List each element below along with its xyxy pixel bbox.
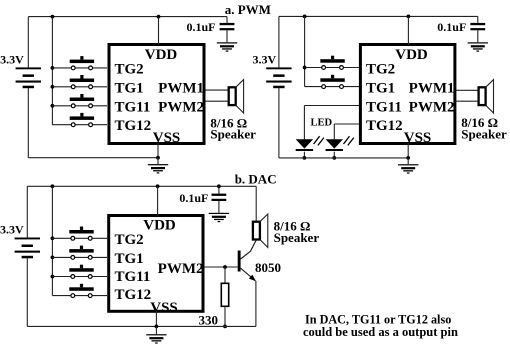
label 8/16 ohm (LS2) — [461, 115, 498, 130]
label 3.3V (b) — [0, 222, 24, 236]
pin label PWM2 (U3) — [158, 261, 204, 277]
wire rail to capacitor C1 — [226, 17, 228, 23]
junction VSS/ground rail — [156, 156, 160, 160]
wire switch column (right) — [304, 16, 306, 86]
pin label TG12 (U3) — [115, 287, 152, 303]
label Speaker (LS2) — [461, 127, 507, 142]
pin label PWM2 (U1) — [158, 99, 204, 115]
wire VSS junction to ground (right) — [407, 158, 409, 164]
wire VSS pin down (U3) — [155, 311, 157, 326]
note line 2 — [303, 325, 458, 339]
wire PWM2 pin to transistor base — [205, 266, 238, 268]
transistor Q1 collector — [241, 240, 257, 259]
junction VSS/ground rail (b) — [155, 325, 159, 329]
junction switch column row 3 (b) — [51, 275, 55, 279]
wire ground rail (circuit b) — [27, 325, 256, 327]
ground below C3 — [209, 213, 229, 222]
pushbutton switch TG2 (right) — [320, 56, 344, 70]
label 3.3V — [0, 52, 24, 66]
ground below C2 — [468, 42, 488, 51]
wire to TG2 pin (right) — [305, 67, 359, 69]
svg-text:TG1: TG1 — [115, 251, 144, 267]
IC U3 body — [109, 216, 203, 312]
ground symbol (circuit b) — [146, 334, 166, 343]
pin label PWM1 (U2) — [409, 81, 455, 97]
label 3.3V (right) — [253, 52, 277, 66]
pin label TG2 (U1) — [115, 62, 144, 78]
junction rail/VDD pin (b) — [156, 184, 160, 188]
wire emitter to ground rail — [255, 281, 257, 327]
label 0.1uF (C2) — [437, 20, 466, 34]
svg-text:TG11: TG11 — [115, 99, 151, 115]
capacitor C3 0.1uF — [212, 194, 227, 201]
wire to TG1 pin (b) — [52, 256, 107, 258]
wire battery+ to rail (right) — [278, 16, 280, 67]
svg-text:could be used as a output pin: could be used as a output pin — [303, 325, 458, 339]
pushbutton switch TG1 — [70, 75, 94, 89]
svg-text:TG11: TG11 — [115, 269, 151, 285]
label Speaker (LS1) — [210, 126, 256, 141]
IC U2 body — [360, 45, 455, 144]
svg-text:PWM2: PWM2 — [158, 261, 204, 277]
junction VSS/ground rail (right) — [406, 156, 410, 160]
svg-text:b. DAC: b. DAC — [235, 171, 277, 186]
svg-text:LED: LED — [311, 118, 333, 129]
wire C2 to ground — [477, 30, 479, 42]
wire VDD pin to rail (U2) — [407, 16, 409, 45]
junction switch column row 2 (b) — [51, 256, 55, 260]
svg-text:3.3V: 3.3V — [0, 52, 24, 66]
pushbutton switch TG1 (b) — [69, 246, 93, 260]
svg-text:0.1uF: 0.1uF — [437, 20, 466, 34]
junction switch column TG2 (right) — [303, 66, 307, 70]
svg-text:330: 330 — [199, 312, 219, 327]
wire D1 to ground rail — [303, 152, 305, 158]
LED D1 — [296, 136, 324, 151]
wire VSS pin down (U2) — [407, 143, 409, 158]
label LED — [311, 118, 333, 129]
wire to TG12 pin — [52, 124, 107, 126]
pushbutton switch TG2 (b) — [69, 227, 93, 241]
wire TG12 pin to LED D2 — [334, 124, 359, 139]
svg-text:TG1: TG1 — [115, 81, 144, 97]
label 0.1uF (C3) — [179, 191, 208, 205]
wire VDD pin to rail — [158, 17, 160, 45]
wire switch supply column — [51, 17, 53, 125]
svg-text:TG2: TG2 — [115, 62, 144, 78]
title a. PWM — [225, 2, 271, 17]
pin label VSS (U2) — [404, 130, 432, 146]
svg-text:8050: 8050 — [255, 260, 281, 275]
wire rail to capacitor C2 — [477, 16, 479, 23]
label Speaker (LS3) — [274, 230, 320, 245]
junction R1/ground rail — [223, 325, 227, 329]
wire D2 to ground rail — [333, 152, 335, 158]
pin label TG11 (U3) — [115, 269, 151, 285]
wire VSS junction to ground (b) — [155, 326, 157, 334]
pin label TG1 (U2) — [366, 81, 395, 97]
junction rail/switch column (right) — [303, 15, 307, 19]
wire switch column (b) — [51, 186, 53, 295]
pushbutton switch TG11 (b) — [69, 265, 93, 279]
svg-text:a. PWM: a. PWM — [225, 2, 271, 17]
svg-text:Speaker: Speaker — [210, 126, 256, 141]
capacitor C2 0.1uF — [470, 23, 485, 30]
svg-text:TG1: TG1 — [366, 81, 395, 97]
junction D2/ground rail — [332, 156, 336, 160]
junction switch column row 1 (b) — [51, 236, 55, 240]
junction rail/capacitor C3 — [217, 184, 221, 188]
junction on top rail at switch column — [51, 15, 55, 19]
resistor R1 330 — [221, 283, 228, 306]
wire to TG1 pin (right) — [305, 86, 359, 88]
junction D1/ground rail — [303, 156, 307, 160]
junction rail/switch column (b) — [51, 184, 55, 188]
wire to TG11 pin — [52, 105, 107, 107]
wire rail to speaker LS3 — [255, 186, 257, 221]
pin label TG11 (U1) — [115, 99, 151, 115]
junction rail/VDD pin (right) — [407, 15, 411, 19]
junction PWM2/resistor R1 — [223, 265, 227, 269]
svg-text:0.1uF: 0.1uF — [179, 191, 208, 205]
wire VSS junction to ground — [157, 158, 159, 164]
svg-text:VDD: VDD — [145, 47, 178, 63]
svg-text:PWM1: PWM1 — [409, 81, 455, 97]
wire ground rail (circuit a right) — [279, 157, 408, 159]
wire battery- down (b) — [26, 258, 28, 326]
junction switch column row 1 — [51, 66, 55, 70]
svg-text:PWM1: PWM1 — [158, 81, 204, 97]
ground symbol (circuit a right) — [398, 164, 418, 173]
junction switch column row 3 — [51, 104, 55, 108]
svg-text:3.3V: 3.3V — [253, 52, 277, 66]
wire PWM1 to speaker (right) — [457, 89, 479, 91]
wire battery- down to ground rail — [27, 88, 29, 158]
junction switch column row 2 — [51, 85, 55, 89]
svg-text:Speaker: Speaker — [461, 127, 507, 142]
transistor Q1 8050 base bar — [238, 251, 241, 272]
speaker LS1 8/16 ohm — [229, 80, 244, 113]
svg-text:VSS: VSS — [153, 130, 181, 146]
pin label TG2 (U2) — [366, 62, 395, 78]
node VDD rail (circuit b) — [27, 185, 256, 187]
pushbutton switch TG12 (b) — [69, 284, 93, 298]
svg-text:TG12: TG12 — [366, 118, 403, 134]
wire to TG2 pin — [52, 67, 107, 69]
wire R1 top — [224, 267, 226, 283]
wire PWM1 to speaker — [206, 89, 229, 91]
ground below C1 — [217, 42, 237, 51]
wire ground rail (circuit a left) — [28, 157, 158, 159]
label 8050 (Q1) — [255, 260, 281, 275]
wire PWM2 to speaker (right) — [457, 100, 479, 102]
label 0.1uF (C1) — [186, 20, 215, 34]
wire to TG11 pin (b) — [52, 276, 107, 278]
pin label TG11 (U2) — [366, 99, 402, 115]
wire to TG12 pin (b) — [52, 295, 107, 297]
battery 3.3V (circuit a right) — [266, 67, 291, 88]
wire TG11 pin to LED D1 — [304, 106, 359, 140]
pin label VDD (U2) — [395, 47, 428, 63]
junction on top rail at VDD pin — [157, 15, 161, 19]
svg-text:3.3V: 3.3V — [0, 222, 24, 236]
wire rail to capacitor C3 — [218, 186, 220, 193]
wire PWM2 to speaker — [206, 100, 229, 102]
transistor Q1 emitter — [241, 268, 256, 281]
node VDD rail (circuit a left) — [28, 16, 227, 18]
pin label VDD (U3) — [143, 217, 176, 233]
pin label TG12 (U1) — [115, 118, 152, 134]
pin label VDD (U1) — [145, 47, 178, 63]
pin label TG1 (U1) — [115, 81, 144, 97]
pin label TG1 (U3) — [115, 251, 144, 267]
pin label PWM2 (U2) — [409, 99, 455, 115]
wire to TG1 pin — [52, 86, 107, 88]
wire VSS pin down — [157, 143, 159, 158]
LED D2 — [326, 136, 354, 151]
wire R1 bottom to ground rail — [224, 306, 226, 326]
title b. DAC — [235, 171, 277, 186]
pushbutton switch TG11 — [70, 94, 94, 108]
pin label PWM1 (U1) — [158, 81, 204, 97]
battery 3.3V (circuit a left) — [16, 67, 41, 88]
svg-text:TG2: TG2 — [366, 62, 395, 78]
pin label TG2 (U3) — [115, 232, 144, 248]
wire battery+ to rail (b) — [26, 186, 28, 237]
wire VDD pin to rail (U3) — [157, 186, 159, 216]
capacitor C1 0.1uF — [220, 23, 235, 30]
label 8/16 ohm (LS3) — [274, 219, 311, 234]
svg-text:TG11: TG11 — [366, 99, 402, 115]
speaker LS2 8/16 ohm — [479, 80, 494, 113]
speaker LS3 8/16 ohm — [253, 214, 268, 247]
pin label VSS (U3) — [150, 300, 178, 316]
pin label VSS (U1) — [153, 130, 181, 146]
pushbutton switch TG1 (right) — [320, 75, 344, 89]
wire C1 to ground — [226, 30, 228, 42]
svg-text:TG12: TG12 — [115, 118, 152, 134]
wire to TG2 pin (b) — [52, 237, 107, 239]
svg-text:VSS: VSS — [150, 300, 178, 316]
note line 1 — [305, 313, 451, 327]
pushbutton switch TG2 — [70, 56, 94, 70]
IC U1 body — [109, 45, 204, 144]
svg-text:TG2: TG2 — [115, 232, 144, 248]
svg-text:TG12: TG12 — [115, 287, 152, 303]
svg-text:0.1uF: 0.1uF — [186, 20, 215, 34]
battery 3.3V (circuit b) — [15, 238, 40, 259]
pushbutton switch TG12 — [70, 113, 94, 127]
node VDD rail (circuit a right) — [279, 15, 478, 17]
wire battery+ to rail — [27, 17, 29, 68]
label 330 (R1) — [199, 312, 219, 327]
ground symbol (circuit a left) — [148, 164, 168, 173]
svg-text:VDD: VDD — [395, 47, 428, 63]
svg-text:VDD: VDD — [143, 217, 176, 233]
wire C3 to ground — [218, 201, 220, 213]
svg-text:Speaker: Speaker — [274, 230, 320, 245]
wire battery- down (right) — [278, 88, 280, 158]
pin label TG12 (U2) — [366, 118, 403, 134]
label 8/16 ohm (LS1) — [210, 116, 247, 131]
svg-text:PWM2: PWM2 — [409, 99, 455, 115]
svg-text:PWM2: PWM2 — [158, 99, 204, 115]
